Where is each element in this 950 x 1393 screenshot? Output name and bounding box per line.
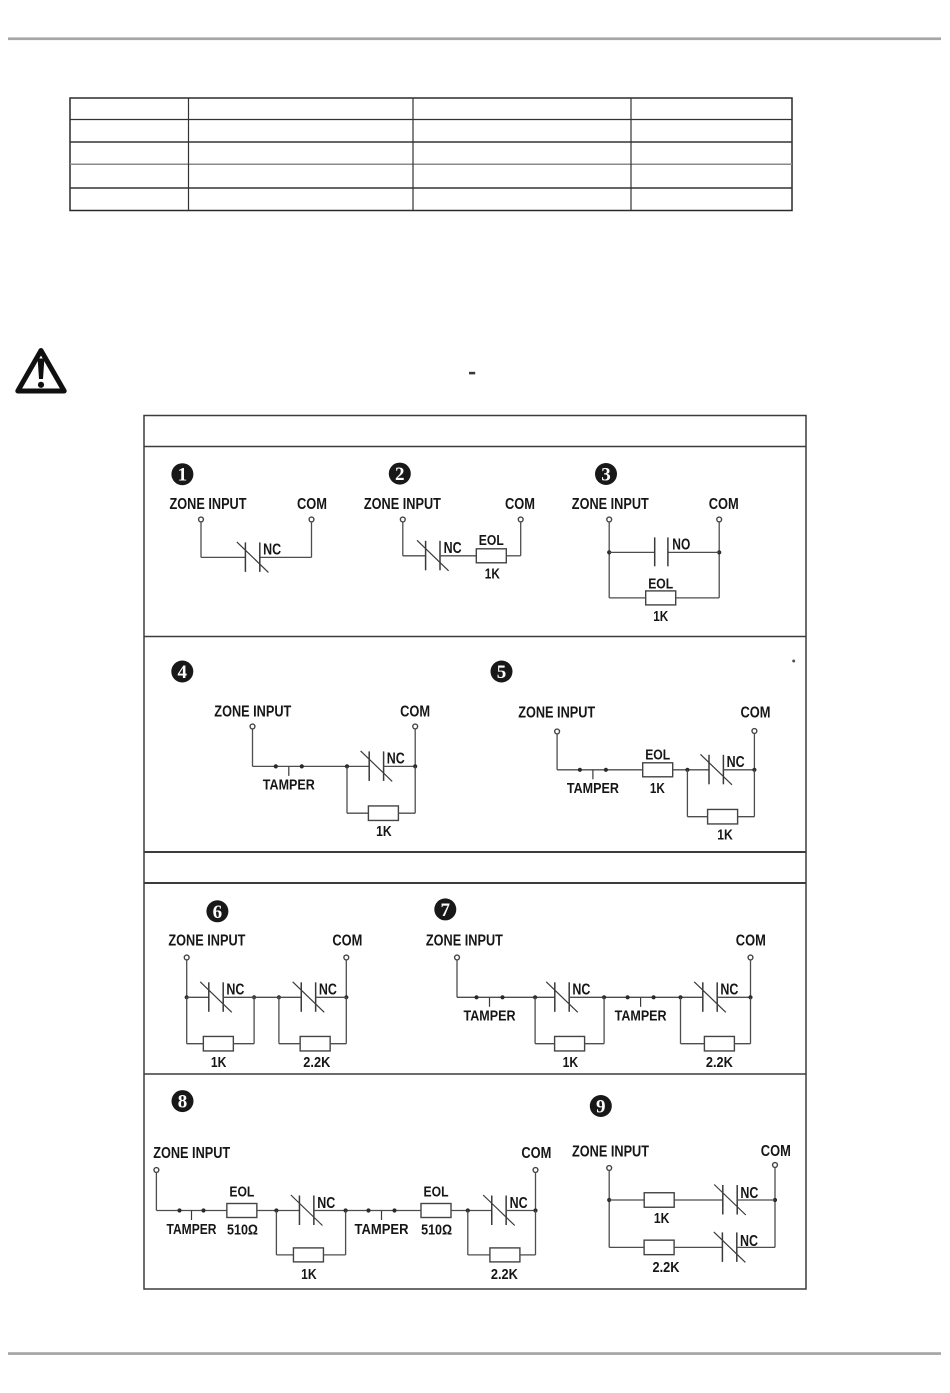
svg-text:510Ω: 510Ω: [421, 1222, 452, 1238]
svg-text:EOL: EOL: [229, 1185, 254, 1201]
svg-text:2: 2: [395, 464, 405, 485]
svg-text:1K: 1K: [376, 823, 392, 840]
svg-text:NC: NC: [387, 750, 405, 767]
svg-text:ZONE INPUT: ZONE INPUT: [572, 1144, 649, 1161]
svg-text:ZONE INPUT: ZONE INPUT: [518, 704, 595, 721]
svg-text:ZONE INPUT: ZONE INPUT: [364, 496, 441, 513]
svg-text:2.2K: 2.2K: [653, 1259, 680, 1276]
svg-text:TAMPER: TAMPER: [567, 781, 619, 797]
svg-text:1: 1: [178, 465, 188, 486]
svg-text:1K: 1K: [654, 1210, 670, 1227]
svg-text:ZONE INPUT: ZONE INPUT: [168, 932, 245, 949]
svg-text:2.2K: 2.2K: [706, 1054, 733, 1071]
svg-text:COM: COM: [741, 704, 771, 721]
svg-text:ZONE INPUT: ZONE INPUT: [426, 932, 503, 949]
svg-text:NC: NC: [444, 540, 462, 557]
svg-text:1K: 1K: [301, 1266, 317, 1283]
svg-text:8: 8: [178, 1092, 188, 1113]
svg-text:COM: COM: [505, 496, 535, 513]
svg-text:NC: NC: [727, 754, 745, 771]
svg-text:2.2K: 2.2K: [303, 1054, 330, 1071]
svg-text:TAMPER: TAMPER: [355, 1222, 409, 1238]
svg-text:ZONE INPUT: ZONE INPUT: [170, 496, 247, 513]
svg-text:5: 5: [497, 662, 507, 683]
svg-text:1K: 1K: [653, 609, 668, 625]
svg-text:NC: NC: [720, 981, 738, 998]
svg-text:ZONE INPUT: ZONE INPUT: [572, 496, 649, 513]
svg-text:1K: 1K: [650, 781, 665, 797]
svg-text:NC: NC: [317, 1195, 335, 1212]
svg-text:NC: NC: [572, 981, 590, 998]
svg-text:EOL: EOL: [648, 577, 673, 593]
svg-text:NC: NC: [319, 981, 337, 998]
svg-text:TAMPER: TAMPER: [263, 778, 315, 794]
svg-text:NC: NC: [226, 981, 244, 998]
svg-text:4: 4: [178, 662, 188, 683]
svg-text:TAMPER: TAMPER: [167, 1222, 217, 1238]
svg-text:510Ω: 510Ω: [227, 1222, 258, 1238]
svg-text:EOL: EOL: [479, 533, 504, 549]
svg-text:TAMPER: TAMPER: [615, 1009, 667, 1025]
svg-text:1K: 1K: [563, 1054, 579, 1071]
svg-text:TAMPER: TAMPER: [464, 1009, 516, 1025]
svg-text:COM: COM: [297, 496, 327, 513]
svg-text:COM: COM: [521, 1145, 551, 1162]
svg-text:COM: COM: [709, 496, 739, 513]
svg-text:ZONE INPUT: ZONE INPUT: [153, 1145, 230, 1162]
svg-text:ZONE INPUT: ZONE INPUT: [214, 703, 291, 720]
svg-text:COM: COM: [761, 1143, 791, 1160]
svg-text:EOL: EOL: [424, 1185, 449, 1201]
svg-text:EOL: EOL: [645, 747, 670, 763]
svg-text:1K: 1K: [485, 567, 500, 583]
svg-text:COM: COM: [736, 932, 766, 949]
svg-text:COM: COM: [332, 932, 362, 949]
svg-text:1K: 1K: [717, 827, 733, 844]
svg-text:NC: NC: [510, 1195, 528, 1212]
svg-text:2.2K: 2.2K: [491, 1266, 518, 1283]
svg-text:9: 9: [596, 1097, 606, 1118]
svg-text:COM: COM: [400, 703, 430, 720]
svg-text:6: 6: [213, 902, 223, 923]
svg-text:NO: NO: [672, 537, 690, 554]
svg-text:3: 3: [601, 465, 611, 486]
svg-text:1K: 1K: [211, 1054, 227, 1071]
svg-text:7: 7: [441, 900, 451, 921]
svg-text:NC: NC: [263, 541, 281, 558]
